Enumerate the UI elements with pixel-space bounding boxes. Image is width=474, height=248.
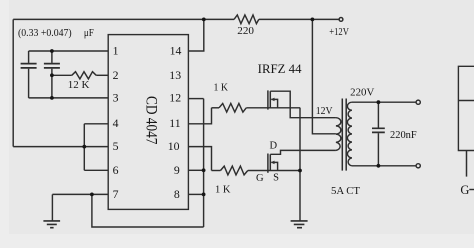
wire pin 14 to top rail [188, 19, 203, 51]
svg-text:G: G [460, 183, 469, 197]
wire secondary top output [352, 101, 416, 103]
svg-text:μF: μF [84, 27, 94, 39]
wire secondary bottom output [352, 165, 416, 167]
node dot bus pin8 [202, 193, 206, 197]
svg-text:5A CT: 5A CT [331, 186, 361, 197]
svg-text:12: 12 [169, 91, 181, 105]
wire ground bus [203, 99, 205, 227]
svg-text:1 K: 1 K [214, 82, 229, 94]
transistor Q2 substrate hook [271, 162, 277, 170]
wire pin 7 [52, 193, 108, 195]
node dot cap C2 bottom [50, 96, 54, 100]
transistor Q2 channel bar [269, 154, 271, 170]
node dot cap C2 top [50, 49, 54, 53]
ground right [291, 221, 308, 228]
svg-text:(0.33 +0.047): (0.33 +0.047) [18, 27, 72, 39]
svg-text:8: 8 [174, 187, 180, 201]
wire pin 7 to ground [51, 194, 53, 220]
transistor Q1 IRFZ44 top gate bar [267, 90, 269, 109]
transistor Q1 substrate arrow [271, 98, 275, 102]
capacitor C2 plates [44, 64, 60, 68]
transistor Q2 substrate arrow [271, 161, 275, 165]
svg-text:12V: 12V [316, 106, 333, 117]
node dot cap C2 / 12K [50, 73, 54, 77]
wire pin 6 stub [84, 169, 108, 171]
wire gate-source row top MOSFET [246, 107, 300, 109]
terminal output top circle [416, 100, 420, 104]
svg-text:14: 14 [170, 44, 182, 58]
svg-text:3: 3 [113, 91, 119, 105]
wire Q1 source down [299, 108, 301, 221]
wire pin 4 stub [84, 123, 108, 125]
capacitor C2 bottom lead [51, 69, 53, 98]
svg-text:2: 2 [113, 68, 119, 82]
capacitor C1 bottom lead [28, 69, 30, 98]
ground left [43, 221, 60, 228]
transistor Q1 channel bar [269, 91, 271, 108]
svg-text:220nF: 220nF [390, 130, 417, 141]
svg-text:9: 9 [174, 163, 180, 177]
IC U1 CD4047 box [108, 35, 188, 210]
capacitor C3 220nF top lead [377, 102, 379, 127]
capacitor C1 top lead [28, 51, 30, 63]
capacitor C2 top lead [51, 51, 53, 63]
wire bottom loop [92, 194, 204, 227]
svg-text:IRFZ 44: IRFZ 44 [258, 62, 303, 76]
wire Q2 drain to transformer primary bottom [270, 150, 336, 154]
resistor 1K bottom [221, 166, 248, 175]
node dot bus pin9 [202, 168, 206, 172]
transformer T1 secondary winding [347, 102, 352, 166]
svg-text:+12V: +12V [329, 27, 349, 38]
wire pin 10 stub [188, 147, 211, 171]
transformer T1 core [342, 99, 346, 171]
TO-220 package outline [458, 66, 474, 150]
wire pin 8 stub [188, 193, 203, 195]
node dot top rail pin14 [202, 18, 206, 22]
wire pin 12 stub [188, 98, 203, 100]
node dot pin7 loop [90, 193, 94, 197]
svg-text:11: 11 [169, 116, 180, 130]
node dot pin5 bracket [82, 145, 86, 149]
node dot cap C3 top [377, 100, 381, 104]
svg-text:7: 7 [113, 187, 119, 201]
TO-220 lead dash [469, 189, 474, 191]
wire 1K bottom lead [212, 170, 221, 172]
wire gate-source row bottom MOSFET [248, 170, 300, 172]
svg-text:5: 5 [113, 139, 119, 153]
wire bracket pins 4-5-6 [83, 124, 85, 171]
svg-text:10: 10 [168, 139, 180, 153]
wire pin 5 [13, 146, 108, 148]
wire pin 2 lead [52, 74, 72, 76]
svg-text:13: 13 [169, 68, 181, 82]
svg-text:220: 220 [237, 26, 254, 37]
svg-text:220V: 220V [350, 87, 375, 98]
node dot top rail 12V [311, 18, 315, 22]
wire top rail right segment [259, 18, 339, 20]
wire resistor 12K to pin 2 [96, 74, 108, 76]
svg-text:6: 6 [113, 163, 119, 177]
wire left border down to pin5 [12, 19, 14, 146]
wire pin 9 stub [188, 169, 203, 171]
svg-text:G: G [256, 173, 264, 184]
wire pin 3 [29, 97, 109, 99]
wire top rail left segment [13, 18, 234, 20]
svg-text:4: 4 [113, 116, 119, 130]
node dot cap C3 bottom [377, 164, 381, 168]
svg-text:1 K: 1 K [215, 183, 231, 195]
svg-text:1: 1 [113, 44, 119, 58]
node dot source junction [298, 169, 302, 173]
resistor 12K [72, 72, 96, 79]
wire pin 11 stub [188, 108, 211, 124]
capacitor C3 plates [372, 128, 385, 132]
svg-text:D: D [270, 140, 278, 151]
transistor Q2 IRFZ44 bottom gate bar [267, 154, 269, 173]
svg-text:12 K: 12 K [68, 79, 90, 91]
TO-220 gate lead [466, 151, 468, 177]
resistor 1K top [219, 104, 246, 113]
terminal +12V circle [339, 18, 343, 22]
terminal output bottom circle [416, 164, 420, 168]
transistor Q1 substrate hook [271, 99, 277, 107]
capacitor C1 plates [21, 64, 37, 68]
wire 1K top lead [212, 107, 220, 109]
wire 12V center tap [312, 19, 336, 133]
wire Q1 drain to transformer primary top [270, 91, 336, 118]
svg-text:S: S [273, 173, 279, 184]
wire pin 1 [29, 50, 109, 52]
resistor 220 [234, 15, 259, 24]
transformer T1 primary winding [336, 118, 341, 151]
svg-text:CD 4047: CD 4047 [143, 96, 160, 144]
capacitor C3 bottom lead [377, 133, 379, 166]
